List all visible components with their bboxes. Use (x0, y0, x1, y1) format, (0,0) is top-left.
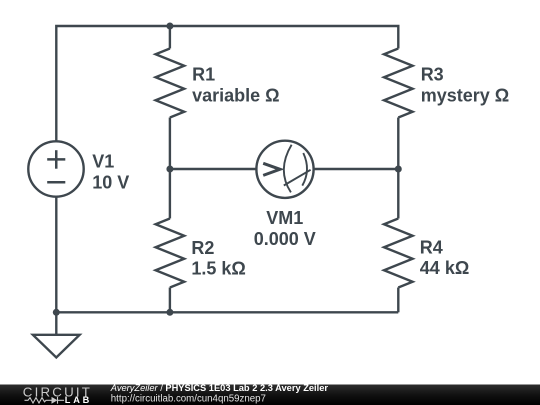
svg-text:mystery Ω: mystery Ω (421, 85, 509, 105)
ground (55, 312, 57, 335)
wire middle branch top stub (169, 26, 171, 49)
svg-text:44 kΩ: 44 kΩ (420, 258, 469, 278)
logo CIRCUIT (23, 384, 92, 399)
resistor R3 (384, 49, 413, 118)
wire bottom horizontal (56, 311, 398, 313)
svg-text:LAB: LAB (65, 395, 92, 405)
wire top horizontal (56, 26, 398, 141)
wire voltmeter right (314, 168, 399, 170)
node bottom left (53, 309, 60, 316)
wire middle branch mid (169, 118, 171, 219)
svg-text:10 V: 10 V (92, 172, 129, 192)
svg-text:R4: R4 (420, 238, 443, 258)
resistor R4 (384, 219, 413, 288)
wire middle branch bottom stub (169, 288, 171, 313)
node top middle (166, 23, 173, 30)
voltage source V1 (28, 141, 83, 196)
logo schematic (25, 397, 65, 404)
logo diode (52, 397, 58, 404)
svg-text:R2: R2 (191, 238, 214, 258)
wire right branch bottom stub (397, 288, 399, 313)
resistor R1 (156, 49, 185, 118)
wire left branch lower (55, 197, 57, 313)
svg-text:V1: V1 (92, 151, 114, 171)
svg-text:1.5 kΩ: 1.5 kΩ (191, 259, 245, 279)
node mid right (395, 166, 402, 173)
wire voltmeter left (170, 168, 256, 170)
svg-text:R1: R1 (192, 64, 215, 84)
node bottom middle (166, 309, 173, 316)
voltmeter VM1 (256, 141, 313, 198)
svg-text:variable Ω: variable Ω (192, 85, 279, 105)
svg-text:R3: R3 (421, 64, 444, 84)
svg-text:AveryZeiler / PHYSICS 1E03 Lab: AveryZeiler / PHYSICS 1E03 Lab 2 2.3 Ave… (110, 383, 329, 393)
svg-text:0.000 V: 0.000 V (254, 229, 316, 249)
svg-text:http://circuitlab.com/cun4qn59: http://circuitlab.com/cun4qn59znep7 (111, 393, 266, 404)
resistor R2 (156, 219, 185, 288)
wire right branch mid (397, 118, 399, 219)
svg-text:VM1: VM1 (266, 208, 303, 228)
node mid middle (166, 166, 173, 173)
